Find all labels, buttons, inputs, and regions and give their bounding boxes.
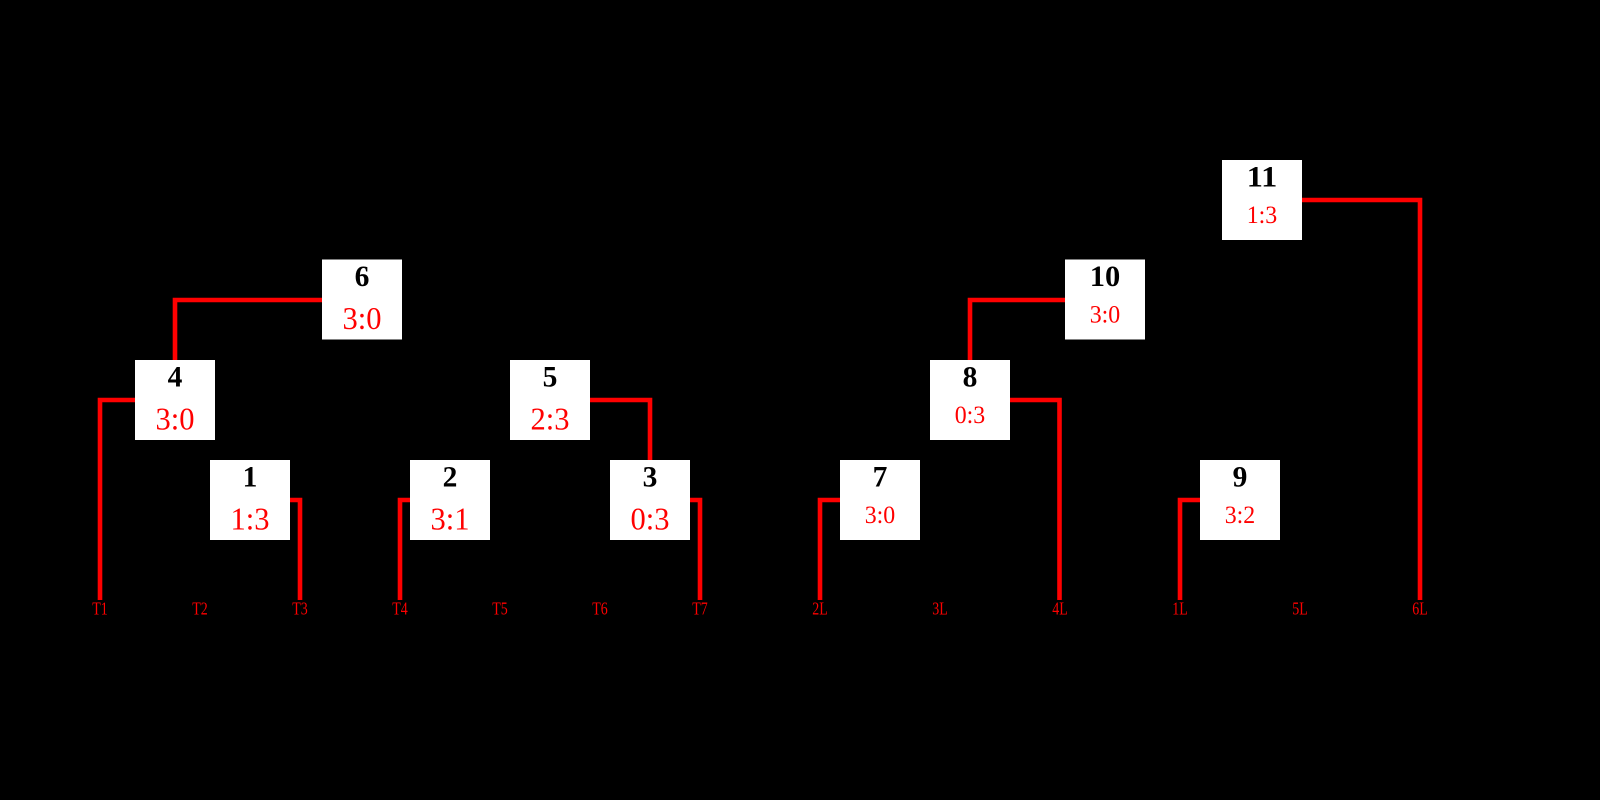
svg-text:3:0: 3:0 (156, 401, 195, 437)
match box 5 (510, 360, 590, 440)
svg-text:1: 1 (243, 461, 258, 493)
match box 11 (1222, 160, 1302, 240)
svg-text:2L: 2L (812, 599, 828, 619)
match box 6 (322, 260, 402, 340)
wire T4 to match 2 (400, 500, 410, 600)
wire T1 to match 4 (100, 400, 135, 600)
wire match 11 to 6L (1302, 200, 1420, 600)
svg-text:3: 3 (643, 461, 658, 493)
svg-text:0:3: 0:3 (631, 501, 670, 537)
match box 8 (930, 360, 1010, 440)
wire match 8 to match 10 (970, 300, 1065, 360)
svg-text:2: 2 (443, 461, 458, 493)
svg-text:1:3: 1:3 (1247, 202, 1278, 229)
svg-text:7: 7 (873, 461, 888, 493)
svg-text:T4: T4 (392, 599, 408, 619)
wire match 8 to 4L (1010, 400, 1060, 600)
svg-text:T7: T7 (692, 599, 708, 619)
svg-text:T6: T6 (592, 599, 608, 619)
match box 7 (840, 460, 920, 540)
svg-text:1L: 1L (1172, 599, 1188, 619)
svg-text:3:0: 3:0 (343, 300, 382, 336)
wire 1L to match 9 (1180, 500, 1200, 600)
svg-text:T1: T1 (92, 599, 108, 619)
svg-text:8: 8 (963, 361, 978, 393)
svg-text:0:3: 0:3 (955, 402, 986, 429)
svg-text:4L: 4L (1052, 599, 1068, 619)
wire match 3 to T7 (690, 500, 700, 600)
svg-text:3:1: 3:1 (431, 501, 470, 537)
svg-text:3:0: 3:0 (865, 502, 896, 529)
svg-text:3L: 3L (932, 599, 948, 619)
match box 3 (610, 460, 690, 540)
match box 4 (135, 360, 215, 440)
match box 9 (1200, 460, 1280, 540)
svg-text:5: 5 (543, 361, 558, 393)
wire match 4 to match 6 (175, 300, 322, 360)
svg-text:2:3: 2:3 (531, 401, 570, 437)
svg-text:6: 6 (355, 261, 370, 293)
svg-text:3:2: 3:2 (1225, 502, 1256, 529)
svg-text:10: 10 (1090, 261, 1121, 293)
match box 1 (210, 460, 290, 540)
svg-text:1:3: 1:3 (231, 501, 270, 537)
svg-text:T2: T2 (192, 599, 208, 619)
svg-text:9: 9 (1233, 461, 1248, 493)
svg-text:4: 4 (168, 361, 183, 393)
svg-text:5L: 5L (1292, 599, 1308, 619)
svg-text:T3: T3 (292, 599, 308, 619)
wire 2L to match 7 (820, 500, 840, 600)
wire match 5 to match 3 (590, 400, 650, 460)
svg-text:T5: T5 (492, 599, 508, 619)
svg-text:11: 11 (1247, 161, 1278, 193)
match box 10 (1065, 260, 1145, 340)
svg-text:6L: 6L (1412, 599, 1428, 619)
svg-text:3:0: 3:0 (1090, 302, 1121, 329)
wire match 1 to T3 (290, 500, 300, 600)
match box 2 (410, 460, 490, 540)
